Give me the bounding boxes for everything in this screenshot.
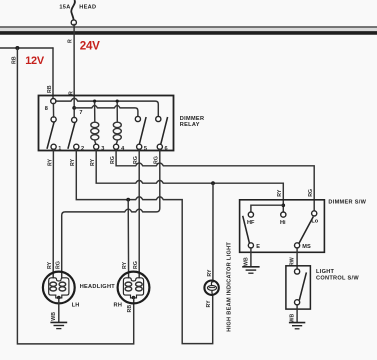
- wire terminal 1 to LH headlight: [52, 149, 54, 278]
- svg-text:3: 3: [101, 146, 104, 152]
- coil junction dot (coil 1 top): [93, 100, 96, 103]
- wire RH lamp to 12V rail: [133, 298, 135, 301]
- junction high-beam indicator tap: [211, 181, 215, 185]
- junction RH low-beam branch: [126, 198, 130, 202]
- junction HF branch: [282, 204, 286, 208]
- ground (LH headlight): [50, 322, 67, 328]
- wire terminal 5 to RH headlight (RG): [138, 149, 140, 278]
- wire 12V down left side to bottom rail: [17, 48, 133, 344]
- svg-text:WB: WB: [51, 312, 57, 321]
- 12V feed wire (horizontal): [0, 47, 53, 49]
- svg-text:6: 6: [165, 146, 168, 152]
- svg-text:HF: HF: [247, 220, 255, 226]
- dimmer switch blade E: [243, 216, 250, 244]
- svg-text:24V: 24V: [80, 39, 100, 52]
- power bus (24V feed rail): [0, 27, 377, 33]
- wire dimmer E to ground: [250, 248, 252, 267]
- wire fuse to relay terminal 7: [73, 24, 75, 106]
- RH headlight lamp: [118, 272, 150, 304]
- svg-text:Hi: Hi: [280, 220, 286, 226]
- svg-text:HIGH BEAM INDICATOR LIGHT: HIGH BEAM INDICATOR LIGHT: [226, 242, 232, 332]
- wire to high beam indicator: [212, 183, 214, 282]
- svg-text:RG: RG: [55, 261, 61, 269]
- relay switch blade 6: [161, 117, 168, 144]
- switch pivot contact 1: [51, 117, 56, 122]
- relay internal bus from 8 (hops over 7 wire, feeds coils, pivot 6): [56, 98, 159, 116]
- ground (light control switch): [289, 323, 305, 329]
- svg-text:7: 7: [79, 110, 82, 116]
- wire light control to ground: [296, 305, 298, 323]
- switch pivot contact 5: [135, 116, 140, 121]
- relay internal bus from 7 (hops over coil wires, to pivot 5): [74, 105, 138, 116]
- relay switch blade 1: [47, 122, 54, 149]
- relay switch blade 5: [139, 117, 146, 144]
- LH headlight lamp: [43, 272, 75, 304]
- wire branch to RH headlight (RY): [127, 200, 129, 278]
- dimmer terminal Hi: [281, 212, 286, 217]
- fuse 15A HEAD: [59, 0, 96, 25]
- svg-text:R: R: [69, 91, 75, 95]
- svg-text:LIGHT: LIGHT: [316, 269, 335, 275]
- svg-text:WB: WB: [290, 314, 296, 323]
- switch pivot contact 6: [156, 116, 161, 121]
- wire terminal 6 to LH headlight (RG): [62, 149, 160, 278]
- wire dimmer MS to light control switch: [296, 248, 298, 269]
- relay terminal 1: [51, 144, 56, 149]
- svg-text:RY: RY: [277, 189, 283, 197]
- svg-text:RG: RG: [110, 156, 116, 164]
- dimmer terminal E: [248, 243, 253, 248]
- light control switch blade: [299, 272, 306, 300]
- svg-text:WB: WB: [244, 257, 250, 266]
- svg-text:DIMMER S/W: DIMMER S/W: [328, 200, 366, 206]
- wire 8 to pivot 1: [52, 103, 54, 117]
- wire 7 to pivot 2: [73, 110, 75, 118]
- dimmer relay box: [39, 96, 174, 151]
- high beam indicator light: [204, 281, 218, 295]
- light control terminal (top): [295, 269, 300, 274]
- svg-text:RY: RY: [70, 158, 76, 166]
- svg-text:RY: RY: [122, 261, 128, 269]
- svg-text:15A: 15A: [59, 5, 70, 11]
- svg-text:E: E: [256, 244, 260, 250]
- svg-text:RY: RY: [47, 158, 53, 166]
- svg-text:RW: RW: [290, 257, 296, 266]
- svg-text:RB: RB: [127, 305, 133, 313]
- wire terminal 2 to indicator return (via bottom rail): [76, 149, 212, 343]
- svg-text:RB: RB: [47, 85, 53, 93]
- dimmer terminal HF: [248, 212, 253, 217]
- dimmer terminal MS: [295, 243, 300, 248]
- svg-text:LH: LH: [72, 303, 80, 309]
- light control terminal (bottom): [295, 300, 300, 305]
- relay terminal 7 junction: [72, 106, 76, 110]
- svg-text:8: 8: [45, 106, 48, 112]
- wire 12V to relay terminal 8: [52, 48, 54, 99]
- wire LH lamp to ground: [58, 298, 60, 323]
- relay terminal 2: [74, 144, 79, 149]
- svg-text:1: 1: [58, 146, 61, 152]
- light control switch box: [286, 266, 311, 309]
- svg-text:R: R: [68, 39, 74, 43]
- svg-text:RG: RG: [133, 261, 139, 269]
- ground (dimmer switch): [242, 267, 259, 273]
- relay coil L1: [91, 103, 99, 145]
- coil junction dot (coil 2 top): [116, 100, 119, 103]
- svg-text:CONTROL S/W: CONTROL S/W: [316, 276, 359, 282]
- relay coil L2: [113, 103, 121, 145]
- svg-text:RY: RY: [207, 269, 213, 277]
- svg-text:RY: RY: [90, 158, 96, 166]
- relay terminal 4: [114, 144, 119, 149]
- dimmer terminal Lo: [312, 211, 317, 216]
- svg-text:RY: RY: [206, 300, 212, 308]
- relay terminal 3: [94, 144, 99, 149]
- relay terminal 8: [51, 99, 56, 104]
- relay terminal 5: [137, 144, 142, 149]
- svg-text:RG: RG: [308, 189, 314, 197]
- relay switch blade 2: [68, 122, 75, 149]
- svg-text:2: 2: [81, 146, 84, 152]
- dimmer switch blade MS-Lo: [299, 217, 313, 244]
- wire branch to HF terminal: [251, 205, 283, 212]
- dimmer switch box: [240, 200, 325, 253]
- svg-text:RY: RY: [47, 261, 53, 269]
- svg-text:RELAY: RELAY: [180, 122, 200, 128]
- switch pivot contact 2: [72, 117, 77, 122]
- svg-text:HEAD: HEAD: [79, 4, 96, 10]
- relay terminal 6: [157, 144, 162, 149]
- svg-text:MS: MS: [302, 244, 311, 250]
- svg-text:HEADLIGHT: HEADLIGHT: [80, 284, 116, 290]
- svg-text:RH: RH: [114, 303, 123, 309]
- svg-text:12V: 12V: [25, 55, 45, 67]
- svg-text:5: 5: [144, 146, 147, 152]
- junction 12V tap: [15, 46, 19, 50]
- wire terminal 4 to dimmer switch Lo: [116, 149, 314, 211]
- wire terminal 3 to dimmer switch Hi: [96, 149, 283, 212]
